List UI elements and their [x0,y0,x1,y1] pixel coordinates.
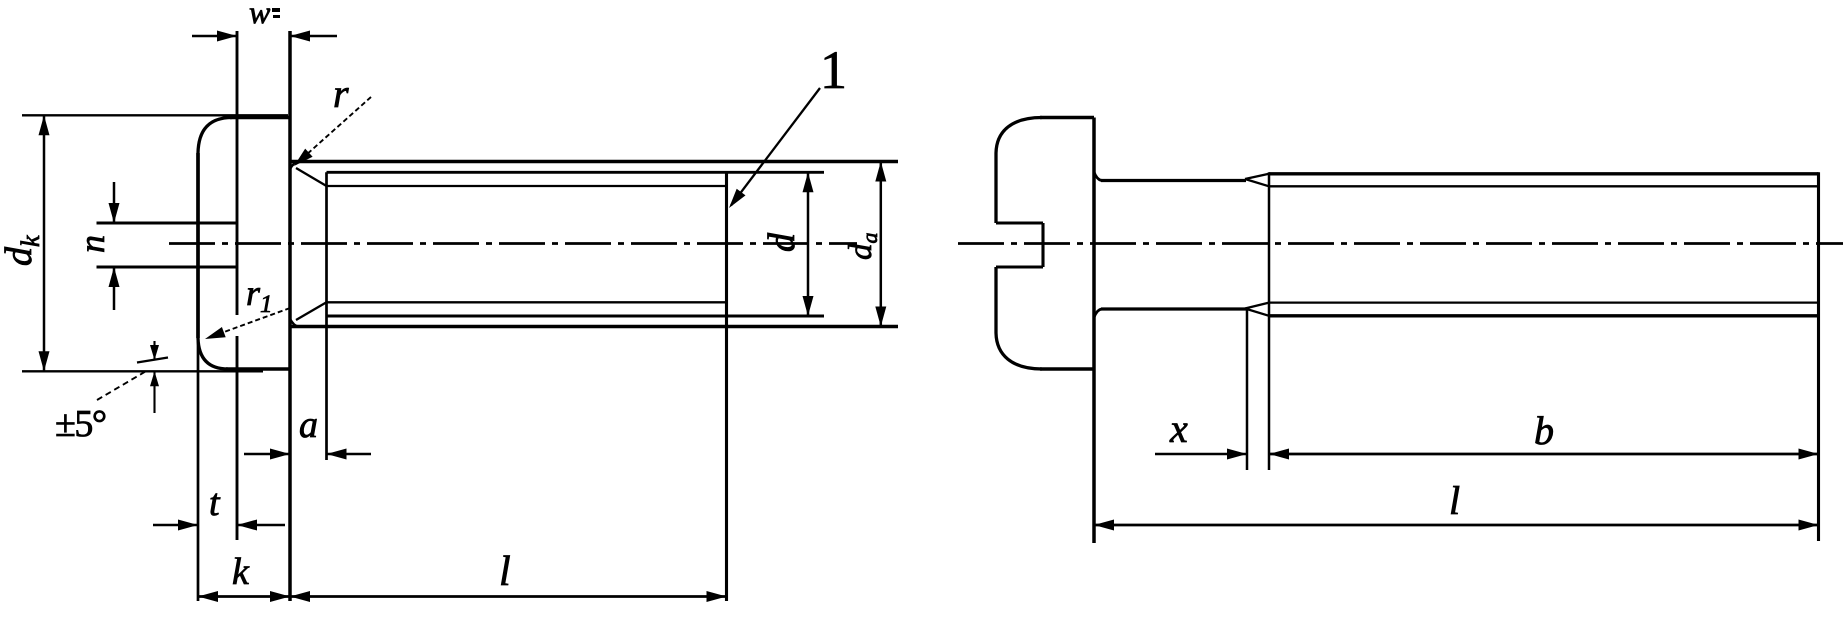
slot top line with extension for n [97,222,238,225]
right head bottom arc [996,333,1042,369]
extension line for t (lower) [236,336,239,540]
head top fillet [198,118,232,154]
slot bottom vertical / extension line for w and t (upper) [236,31,239,315]
thread start vertical line with extension for a [325,172,328,460]
leader from plus-minus 5 deg label [97,370,148,400]
a arrow left [270,449,290,460]
dimension b line [1269,453,1819,456]
angle tolerance arrowhead down [150,345,159,360]
svg-text:k: k [232,551,250,593]
dimension x tail [1155,453,1247,456]
item 1 leader arrowhead [729,189,746,208]
slot bottom line with extension for n [97,266,238,269]
extension line for x at runout apex [1246,308,1249,470]
label w tolerance marks [272,8,280,18]
right head top face [1040,116,1094,120]
t arrow right [237,520,257,531]
dimension d_k bottom extension line [22,370,263,372]
right head left face lower segment [994,267,997,333]
svg-text:a: a [299,404,318,446]
right thread root top [1269,185,1819,187]
right runout wedge top upper [1245,174,1269,179]
extension line for x and b at full thread start [1268,172,1271,470]
thread root bottom line [327,301,727,303]
head top face [230,116,290,120]
dimension t right tail [237,524,285,527]
l right arrow left [1094,520,1114,531]
right head top arc [996,118,1042,154]
svg-text:n: n [72,235,112,253]
right thread root bottom [1269,301,1819,303]
right head bottom face [1040,367,1094,371]
d_a arrow bottom [875,307,886,327]
dimension a right tail [327,453,372,456]
right centerline [958,242,1843,245]
right head right face with extension down to l dimension [1092,118,1096,544]
l arrow left [290,591,310,602]
thread major top line (d) [327,171,825,174]
svg-text:d: d [761,232,803,252]
d_k arrow top [39,115,50,135]
leader line for r (top fillet) [296,97,371,164]
svg-text:r: r [333,71,349,116]
d_k arrow bottom [39,351,50,371]
angle tolerance arrow stem bottom [153,371,155,413]
dimension d_a line [880,162,883,327]
d arrow top [803,172,814,192]
svg-text:b: b [1534,408,1554,453]
right slot bottom vertical [1041,223,1044,267]
svg-text:x: x [1169,406,1188,451]
dimension d_k line [43,116,46,371]
svg-text:l: l [1449,478,1460,523]
under-head fillet bottom [290,319,298,327]
dimension a left tail [244,453,290,456]
right runout wedge bottom upper [1245,303,1269,309]
leader line for r1 (bottom fillet) [209,308,290,338]
right shank top line [1101,179,1246,182]
right runout wedge top lower [1245,179,1269,186]
shank outer top line (d_a) [290,160,898,164]
dimension n line top segment [113,182,116,223]
centerline left screw [169,242,857,245]
t arrow left [178,520,198,531]
svg-text:1: 1 [820,40,847,100]
svg-text:w: w [249,0,271,30]
l right arrow right [1799,520,1819,531]
d arrow bottom [803,296,814,316]
svg-text:±5°: ±5° [55,403,106,445]
w arrow right [290,31,310,42]
right under-head fillet bottom [1094,309,1102,318]
under-head fillet top [290,162,298,170]
right slot top line [996,221,1043,224]
dimension t left tail [153,524,198,527]
right thread major bottom [1269,314,1819,317]
thread major bottom line (d) [327,315,825,318]
right slot bottom line [996,265,1043,268]
dimension w line right tail [290,35,337,38]
right under-head fillet top [1094,172,1102,181]
dimension line k and l shared [198,595,727,598]
r leader arrowhead [294,149,313,166]
right shank bottom line [1101,307,1246,310]
right head left face upper segment [994,153,997,223]
angle tolerance arrow stem top [153,341,155,360]
head bottom face [226,367,290,371]
x arrow [1227,449,1247,460]
shank outer bottom line (d_a) [290,325,898,329]
angle tolerance arrowhead up [150,371,159,386]
b arrow left [1269,449,1289,460]
head bottom fillet [198,338,228,369]
k arrow right [270,591,290,602]
right thread major top [1269,172,1819,175]
w arrow left [217,31,237,42]
r1 leader arrowhead [205,327,226,339]
head left face [196,153,200,338]
k arrow left [198,591,218,602]
screw end face with extension down to l dimension [725,172,728,601]
n arrow top [109,203,120,223]
a arrow right [327,449,347,460]
leader line for item 1 [731,88,820,205]
dimension l right screw line [1094,524,1819,527]
head right face / bearing face with extensions (w above, k below) [288,31,292,601]
thread runout slant top [296,168,327,186]
b arrow right [1799,449,1819,460]
dimension d line [807,172,810,316]
head left face extension line down to k dimension [197,338,200,601]
right end face with extension down to l dimension [1817,172,1820,541]
thread root top line [327,185,727,187]
dimension d_k top extension line [22,114,288,116]
dimension w line left tail [192,35,237,38]
n arrow bottom [109,267,120,287]
l arrow right [707,591,727,602]
dimension n line bottom segment [113,267,116,310]
svg-text:l: l [499,549,511,595]
d_a arrow top [875,162,886,182]
thread runout slant bottom [296,302,327,320]
bearing face angle tolerance tick [137,358,168,363]
right runout wedge bottom lower [1245,309,1269,316]
svg-text:t: t [209,482,221,524]
